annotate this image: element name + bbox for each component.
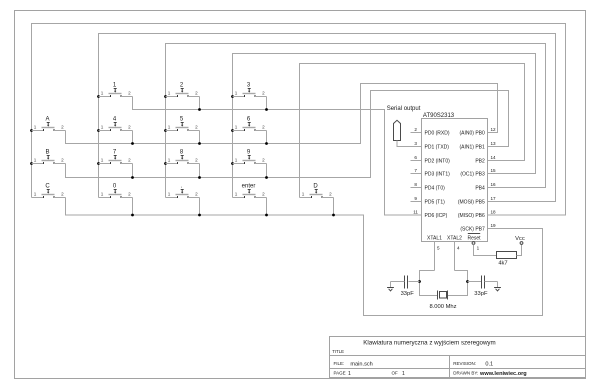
svg-text:2: 2 — [262, 192, 265, 197]
svg-text:33pF: 33pF — [401, 291, 415, 297]
svg-text:2: 2 — [128, 192, 131, 197]
svg-text:XTAL1: XTAL1 — [427, 235, 442, 241]
pushbutton "5" — [166, 117, 200, 132]
svg-text:17: 17 — [491, 196, 497, 201]
svg-text:B: B — [45, 150, 49, 156]
wire serial connector to PD1 (TXD) pin 3 — [397, 141, 422, 147]
svg-text:1: 1 — [168, 158, 171, 163]
pushbutton "9" — [233, 150, 267, 165]
svg-text:(AIN1) PB1: (AIN1) PB1 — [460, 144, 486, 150]
svg-text:2: 2 — [128, 158, 131, 163]
pin 6 PD2 (INT0) — [411, 160, 422, 162]
ground for C2 — [494, 282, 501, 291]
pin 8 PD4 (T0) — [411, 187, 422, 189]
svg-text:PD3 (INT1): PD3 (INT1) — [425, 171, 451, 177]
resistor R1 4k7 — [497, 252, 517, 259]
svg-text:REVISION:: REVISION: — [453, 361, 476, 366]
pushbutton "4" — [99, 117, 133, 132]
svg-text:1: 1 — [101, 125, 104, 130]
svg-text:PD5 (T1): PD5 (T1) — [425, 199, 446, 205]
wire net keypad column D to pin 14 — [300, 64, 525, 198]
svg-text:13: 13 — [491, 141, 497, 146]
svg-text:Vcc: Vcc — [515, 236, 525, 242]
title block — [330, 337, 586, 378]
wire net keypad column A/B/C to pin 18 — [32, 24, 566, 216]
svg-text:(MISO) PB6: (MISO) PB6 — [458, 213, 485, 219]
pushbutton "A" — [32, 117, 66, 132]
svg-text:(OC1) PB3: (OC1) PB3 — [460, 171, 485, 177]
svg-text:1: 1 — [235, 192, 238, 197]
svg-text:PB2: PB2 — [475, 158, 485, 164]
wire button drop column c3 row 1 — [266, 97, 268, 110]
svg-text:(MOSI) PB5: (MOSI) PB5 — [458, 199, 485, 205]
wire row 4 net (C,0,dot,enter,D) to PB7 pin 19 — [66, 198, 543, 316]
svg-text:1: 1 — [101, 91, 104, 96]
svg-text:TITLE: TITLE — [332, 349, 344, 354]
svg-text:PAGE: PAGE — [334, 371, 346, 376]
wire button drop column c2 row 1 — [199, 97, 201, 110]
svg-text:www.leniwiec.org: www.leniwiec.org — [479, 371, 527, 377]
pushbutton "D" — [300, 184, 334, 199]
svg-text:8.000 Mhz: 8.000 Mhz — [429, 304, 456, 310]
microcontroller U1 AT90S2313 — [422, 119, 488, 242]
svg-text:8: 8 — [414, 182, 417, 187]
power symbol Vcc — [520, 242, 523, 245]
pushbutton "." — [166, 184, 200, 199]
svg-text:enter: enter — [242, 184, 256, 190]
svg-text:2: 2 — [128, 125, 131, 130]
svg-text:FILE:: FILE: — [334, 361, 345, 366]
svg-text:1: 1 — [168, 125, 171, 130]
svg-text:AT90S2313: AT90S2313 — [423, 113, 455, 119]
wire button drop column c1 row 3 — [132, 164, 134, 178]
junction dots on row wires — [198, 108, 201, 111]
svg-text:14: 14 — [491, 155, 497, 160]
svg-text:1: 1 — [235, 158, 238, 163]
pushbutton "C" — [32, 184, 66, 199]
junction dots on column buses — [97, 95, 100, 98]
svg-text:1: 1 — [34, 125, 37, 130]
svg-text:2: 2 — [262, 125, 265, 130]
capacitor C1 33pF — [409, 281, 420, 283]
svg-text:(AIN0) PB0: (AIN0) PB0 — [460, 130, 486, 136]
svg-text:main.sch: main.sch — [350, 362, 372, 368]
svg-text:1: 1 — [402, 371, 405, 377]
svg-text:(SCK) PB7: (SCK) PB7 — [460, 226, 485, 232]
svg-text:Serial output: Serial output — [387, 106, 421, 112]
svg-text:PD6 (ICP): PD6 (ICP) — [425, 213, 448, 219]
svg-text:1: 1 — [34, 158, 37, 163]
svg-text:PD1 (TXD): PD1 (TXD) — [425, 144, 450, 150]
wire row 1 net (buttons 1,2,3) to PD6 pin 11 — [133, 97, 422, 216]
svg-text:6: 6 — [414, 155, 417, 160]
svg-text:1: 1 — [235, 91, 238, 96]
svg-text:15: 15 — [491, 168, 497, 173]
pin 2 PD0 (RXD) — [411, 132, 422, 134]
svg-text:Reset: Reset — [467, 235, 481, 241]
svg-text:1: 1 — [302, 192, 305, 197]
pushbutton "enter" — [233, 184, 267, 199]
svg-text:PB4: PB4 — [475, 185, 485, 191]
svg-text:1: 1 — [168, 192, 171, 197]
pushbutton "2" — [166, 83, 200, 98]
wire button drop column c2 row 4 — [199, 198, 201, 216]
wire resistor to Vcc — [517, 244, 522, 255]
svg-text:18: 18 — [491, 209, 497, 214]
wire button drop column c3 row 4 — [266, 198, 268, 216]
svg-text:2: 2 — [329, 192, 332, 197]
svg-text:19: 19 — [491, 223, 497, 228]
wire button drop column c2 row 2 — [199, 131, 201, 144]
svg-text:4k7: 4k7 — [498, 261, 507, 267]
svg-text:OF: OF — [392, 371, 399, 376]
svg-text:1: 1 — [477, 245, 480, 250]
wire button drop column cD row 4 — [333, 198, 335, 216]
svg-text:2: 2 — [61, 158, 64, 163]
svg-text:2: 2 — [61, 125, 64, 130]
svg-text:2: 2 — [414, 127, 417, 132]
svg-text:PD0 (RXD): PD0 (RXD) — [425, 130, 450, 136]
svg-text:12: 12 — [491, 127, 497, 132]
pushbutton "0" — [99, 184, 133, 199]
wire net keypad column 2/5/8/dot to pin 16 — [166, 44, 546, 198]
wire net keypad column 3/6/9/enter to pin 15 — [233, 54, 536, 198]
svg-text:2: 2 — [61, 192, 64, 197]
svg-text:XTAL2: XTAL2 — [447, 235, 462, 241]
svg-text:2: 2 — [195, 158, 198, 163]
wire button drop column c3 row 2 — [266, 131, 268, 144]
pin 9 PD5 (T1) — [411, 201, 422, 203]
svg-text:9: 9 — [414, 196, 417, 201]
pushbutton "8" — [166, 150, 200, 165]
svg-text:D: D — [313, 184, 318, 190]
wire button drop column c3 row 3 — [266, 164, 268, 178]
wire row 3 net (B,7,8,9) to PB1 pin 13 — [66, 91, 509, 178]
ground for C1 — [387, 282, 394, 291]
svg-text:2: 2 — [262, 91, 265, 96]
pushbutton "7" — [99, 150, 133, 165]
capacitor C2 33pF — [468, 281, 482, 283]
svg-text:1: 1 — [348, 371, 351, 377]
svg-text:1: 1 — [101, 158, 104, 163]
wire net keypad column 1/4/7/0 to pin 17 — [99, 34, 556, 202]
svg-text:5: 5 — [437, 245, 440, 250]
svg-text:Klawiatura numeryczna z wyjści: Klawiatura numeryczna z wyjściem szerego… — [363, 340, 495, 347]
wire XTAL1 to crystal node — [420, 271, 438, 296]
svg-text:PD2 (INT0): PD2 (INT0) — [425, 158, 451, 164]
svg-text:11: 11 — [413, 209, 418, 214]
wire button drop column c2 row 3 — [199, 164, 201, 178]
svg-text:0.1: 0.1 — [485, 362, 493, 368]
wire Reset pin to resistor — [474, 244, 497, 255]
wire XTAL2 to crystal node — [448, 271, 468, 296]
crystal Y1 8.000 Mhz — [437, 291, 439, 300]
pushbutton "3" — [233, 83, 267, 98]
pushbutton "B" — [32, 150, 66, 165]
svg-text:1: 1 — [101, 192, 104, 197]
svg-text:3: 3 — [414, 141, 417, 146]
svg-text:2: 2 — [195, 125, 198, 130]
junction node XTAL1 / C1 — [418, 280, 421, 283]
svg-text:2: 2 — [195, 91, 198, 96]
svg-text:7: 7 — [414, 168, 417, 173]
svg-text:1: 1 — [168, 91, 171, 96]
wire button drop column c1 row 2 — [132, 131, 134, 144]
wire button drop column c1 row 4 — [132, 198, 134, 216]
pin 7 PD3 (INT1) — [411, 173, 422, 175]
svg-text:16: 16 — [491, 182, 497, 187]
junction node XTAL2 / C2 — [466, 280, 469, 283]
wire row 2 net (A,4,5,6) to PB0 pin 12 — [66, 84, 498, 144]
svg-text:1: 1 — [34, 192, 37, 197]
svg-text:4: 4 — [457, 245, 460, 250]
pushbutton "6" — [233, 117, 267, 132]
svg-text:DRAWN BY:: DRAWN BY: — [453, 371, 478, 376]
svg-text:2: 2 — [195, 192, 198, 197]
svg-text:2: 2 — [262, 158, 265, 163]
svg-text:C: C — [45, 184, 50, 190]
svg-text:A: A — [45, 117, 49, 123]
pushbutton "1" — [99, 83, 133, 98]
svg-text:PD4 (T0): PD4 (T0) — [425, 185, 446, 191]
svg-text:1: 1 — [235, 125, 238, 130]
svg-text:33pF: 33pF — [474, 291, 488, 297]
svg-text:2: 2 — [128, 91, 131, 96]
